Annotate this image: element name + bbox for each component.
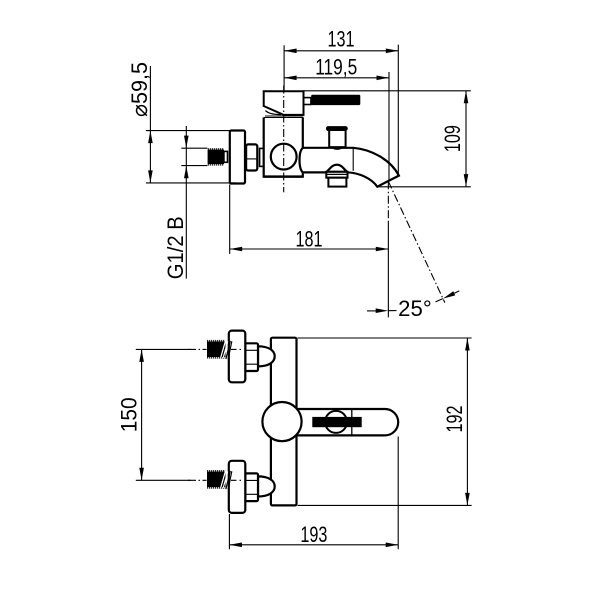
handle joint line: [351, 410, 353, 435]
dimension 193: [229, 437, 398, 550]
upper threaded pipe (front view): [207, 341, 232, 359]
svg-text:G1/2 B: G1/2 B: [163, 216, 188, 279]
wall escutcheon flange (side view): [230, 131, 245, 184]
svg-text:109: 109: [440, 125, 465, 152]
svg-text:131: 131: [328, 27, 355, 52]
cartridge housing (top of body): [264, 91, 304, 115]
lower threaded pipe (front view): [207, 471, 232, 489]
thread extension lines: [181, 148, 207, 165]
upper escutcheon flange (front view): [229, 331, 246, 383]
spout joint line: [352, 149, 354, 171]
dimension 25 degrees: [367, 291, 459, 321]
spout (side view): [300, 148, 399, 187]
union hex nut (side view): [246, 144, 257, 170]
svg-text:119,5: 119,5: [315, 55, 357, 80]
lower pipe centerline: [188, 479, 241, 481]
svg-text:⌀59,5: ⌀59,5: [127, 62, 152, 117]
dimension G1/2 B thread: [163, 126, 189, 279]
dimension 109: [304, 91, 471, 187]
body cap circle (side view): [271, 144, 297, 170]
lower escutcheon flange (front view): [229, 461, 246, 513]
dimension 131: [284, 27, 398, 176]
lever handle capsule (front view): [297, 409, 399, 435]
svg-text:181: 181: [296, 226, 323, 251]
dimension 119,5: [284, 55, 389, 181]
lower hex nut (front view): [245, 473, 258, 501]
upper pipe centerline: [188, 348, 241, 350]
dimension 192: [298, 338, 472, 505]
svg-text:192: 192: [442, 406, 467, 433]
body centerline: [283, 86, 285, 193]
hand-shower outlet below spout: [326, 165, 347, 187]
body cap circle (front view): [262, 402, 301, 441]
lower ball union dome: [258, 476, 275, 496]
pipe collar: [224, 151, 228, 162]
inlet boss: [260, 148, 264, 166]
dimension 181: [230, 185, 389, 254]
svg-text:150: 150: [117, 397, 142, 432]
dimension 150: [117, 349, 191, 480]
spout outlet centerline: [387, 181, 389, 317]
lever handle bar (side view): [311, 95, 360, 105]
threaded wall pipe (side view): [208, 149, 224, 165]
lever stem: [304, 98, 311, 105]
upper hex nut (front view): [245, 343, 258, 371]
svg-text:193: 193: [300, 522, 327, 547]
handle grip bar (front view): [312, 417, 361, 427]
diverter knob on spout: [326, 126, 348, 149]
faucet body (front view): [271, 338, 297, 506]
handle ring: [325, 411, 347, 433]
svg-text:25°: 25°: [398, 296, 432, 321]
25 degree flow line: [388, 181, 445, 302]
upper ball union dome: [258, 346, 275, 366]
dimension diameter 59,5: [127, 62, 236, 183]
body joint line: [264, 116, 303, 118]
faucet body (side view): [264, 117, 303, 176]
